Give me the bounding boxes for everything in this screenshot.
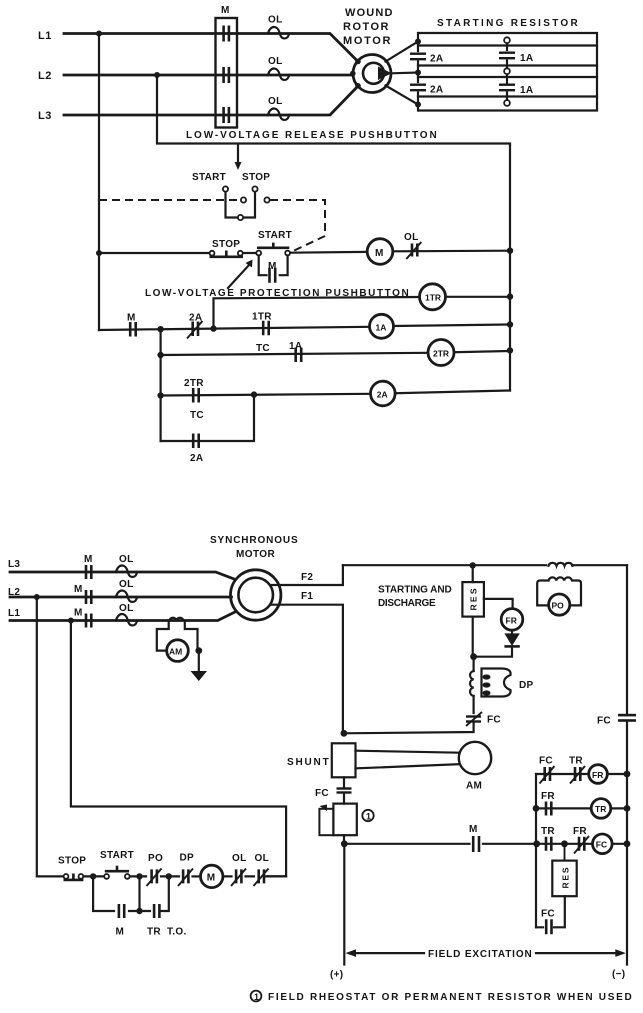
- svg-text:M: M: [268, 261, 277, 272]
- svg-text:2A: 2A: [430, 54, 443, 65]
- wire FC to F1 bus: [344, 723, 474, 733]
- svg-text:TR: TR: [541, 826, 555, 837]
- svg-text:STOP: STOP: [242, 172, 270, 183]
- contact PO NC: [147, 853, 164, 886]
- rheostat box (1): [333, 804, 356, 836]
- wire 2TR rung: [161, 351, 510, 355]
- wire row segment: [130, 875, 146, 877]
- svg-text:OL: OL: [119, 579, 134, 590]
- svg-text:STOP: STOP: [58, 856, 86, 867]
- svg-text:DP: DP: [180, 853, 195, 864]
- overload heater OL L2: [116, 590, 137, 601]
- wire right (-) rail: [626, 565, 628, 964]
- svg-text:2A: 2A: [377, 390, 388, 400]
- svg-text:M: M: [375, 248, 384, 259]
- wire right control rail: [509, 145, 511, 391]
- svg-text:STOP: STOP: [212, 239, 240, 250]
- contact M aux (1A rung): [127, 313, 136, 337]
- contact M field: [469, 824, 479, 852]
- contact TR NO (FC rung): [541, 826, 555, 851]
- contact DP NC: [178, 853, 194, 887]
- release pushbutton STOP contact: [244, 192, 255, 218]
- shunt field box: [332, 743, 356, 777]
- capacitor FC on right rail: [597, 714, 636, 727]
- svg-text:M: M: [469, 824, 478, 835]
- node junction dot F1 bus: [341, 730, 348, 737]
- arrow to release pushbutton: [237, 144, 239, 163]
- svg-text:M: M: [84, 554, 93, 565]
- contact 2A aux (parallel): [190, 434, 203, 465]
- wire 2A rung: [161, 391, 510, 396]
- node junction dot L1/left rail: [96, 31, 102, 37]
- node junction dot L1: [68, 618, 74, 624]
- wire release pushbutton feed line: [157, 75, 510, 145]
- svg-text:L3: L3: [38, 110, 52, 122]
- bottom-left control: wire rail from L2: [37, 597, 64, 876]
- svg-text:F1: F1: [301, 591, 313, 602]
- wire resistor middle column: [506, 43, 508, 100]
- meter AM (field) circle: [459, 742, 491, 774]
- svg-text:OL: OL: [404, 232, 419, 243]
- meter PO circle: [549, 594, 570, 615]
- wire RES tap to FR: [484, 599, 513, 609]
- node junction dot 2TR rung: [157, 352, 163, 358]
- wire left control rail: [98, 34, 100, 331]
- svg-text:FR: FR: [541, 791, 555, 802]
- svg-text:FC: FC: [597, 716, 611, 727]
- svg-text:OL: OL: [268, 56, 283, 67]
- coil M (sync): [201, 865, 223, 887]
- overload heater OL L2: [268, 68, 289, 79]
- svg-text:1: 1: [366, 812, 371, 822]
- contact OL NC 1 (sync): [231, 853, 247, 886]
- svg-text:PO: PO: [148, 853, 163, 864]
- wire TR rung: [536, 807, 627, 809]
- wire L3 line: [10, 572, 234, 579]
- wire F2 lead: [271, 565, 343, 585]
- svg-text:TC: TC: [256, 343, 270, 354]
- svg-text:F2: F2: [301, 572, 313, 583]
- wire L1 phase line: [64, 34, 358, 62]
- svg-text:FR: FR: [592, 770, 603, 780]
- wire diode to junction: [474, 646, 512, 656]
- contact FC NC (FR rung): [539, 756, 555, 784]
- svg-text:FIELD RHEOSTAT OR PERMANENT RE: FIELD RHEOSTAT OR PERMANENT RESISTOR WHE…: [268, 992, 632, 1003]
- contact TR T.O. (sync): [147, 904, 187, 938]
- svg-text:(+): (+): [330, 970, 343, 981]
- node junction dot 2A rung: [157, 392, 163, 398]
- coil 2A: [371, 381, 396, 406]
- svg-text:OL: OL: [119, 554, 134, 565]
- svg-text:(−): (−): [612, 969, 625, 980]
- overload heater OL L3: [116, 565, 137, 576]
- note: circled 1 field rheostat: [251, 991, 262, 1002]
- node junction dot seal branch: [136, 908, 142, 914]
- wire seal branch verticals: [93, 876, 169, 911]
- pushbutton START (protection): [256, 230, 292, 255]
- node rotor lead junction dots on bank: [415, 39, 421, 45]
- contact TR NC (FR rung): [569, 756, 585, 784]
- svg-text:AM: AM: [169, 647, 182, 657]
- svg-text:PO: PO: [552, 601, 565, 611]
- svg-text:OL: OL: [232, 853, 247, 864]
- contact 1A lower: [499, 84, 533, 97]
- svg-text:START: START: [258, 230, 292, 241]
- wire FR rung: [536, 773, 627, 775]
- svg-text:START: START: [100, 850, 134, 861]
- svg-text:2A: 2A: [430, 85, 443, 96]
- transformer PO secondary loop: [537, 577, 581, 605]
- node junction dot field bus left: [341, 840, 348, 847]
- contact 2A upper (accelerating): [410, 53, 443, 65]
- contact M L3 pole: [224, 107, 229, 123]
- svg-text:STARTING RESISTOR: STARTING RESISTOR: [437, 18, 578, 29]
- svg-text:ROTOR: ROTOR: [343, 21, 389, 33]
- svg-text:1A: 1A: [289, 341, 302, 352]
- node junction dot FC rung: [561, 840, 568, 847]
- svg-text:M: M: [127, 313, 136, 324]
- release pushbutton START contact: [226, 192, 238, 218]
- svg-text:WOUND: WOUND: [345, 7, 393, 19]
- coil FC: [593, 834, 613, 854]
- svg-text:TR: TR: [595, 804, 606, 814]
- svg-text:T.O.: T.O.: [167, 927, 187, 938]
- diode rectifier: [511, 630, 513, 633]
- resistor RES (discharge) box: [552, 844, 576, 896]
- wire 2A parallel branch: [161, 395, 254, 441]
- relay DP coil: [473, 657, 475, 671]
- svg-text:RES: RES: [469, 588, 479, 610]
- arrow to protection pushbutton: [228, 265, 250, 289]
- contact M L1 pole: [224, 26, 229, 42]
- svg-text:STARTING AND: STARTING AND: [378, 585, 452, 596]
- wire row segment: [84, 875, 105, 877]
- svg-text:AM: AM: [466, 781, 482, 792]
- resistor bank internal taps: [418, 46, 597, 97]
- svg-text:2TR: 2TR: [184, 378, 204, 389]
- coil 1TR: [420, 284, 446, 310]
- svg-text:MOTOR: MOTOR: [343, 35, 391, 47]
- node rail dot FC rung: [624, 840, 631, 847]
- contact FC (bottom): [541, 909, 555, 935]
- svg-text:FIELD EXCITATION: FIELD EXCITATION: [428, 949, 532, 960]
- svg-text:1TR: 1TR: [252, 312, 272, 323]
- wire 1A rung: [99, 325, 510, 331]
- svg-text:RES: RES: [561, 867, 571, 888]
- svg-text:MOTOR: MOTOR: [236, 549, 275, 560]
- wire RES bottom to junction: [472, 617, 474, 657]
- contact FC NC (discharge path): [466, 712, 501, 726]
- wire rotor lead top: [386, 42, 419, 62]
- contact M L1: [74, 608, 91, 628]
- svg-text:DISCHARGE: DISCHARGE: [378, 598, 436, 609]
- wire L2 line: [10, 596, 232, 599]
- contact M seal (sync): [116, 904, 125, 938]
- overload heater OL L3: [268, 108, 289, 119]
- svg-text:SYNCHRONOUS: SYNCHRONOUS: [210, 535, 298, 546]
- wire rotor lead bottom: [386, 86, 419, 105]
- capacitor FC below shunt: [315, 787, 352, 799]
- svg-text:TR: TR: [569, 756, 583, 767]
- wire top bus (F2 to right rail): [343, 564, 627, 566]
- svg-text:1A: 1A: [376, 322, 387, 332]
- svg-text:FC: FC: [541, 909, 555, 920]
- field excitation arrow line: [352, 952, 620, 954]
- wire L1 line: [10, 612, 236, 621]
- svg-text:M: M: [207, 873, 216, 884]
- wire 1TR rung: [214, 297, 511, 329]
- pushbutton STOP (protection): [210, 239, 244, 257]
- svg-text:L3: L3: [8, 559, 20, 570]
- svg-text:START: START: [192, 172, 226, 183]
- contact 1TR TC (1A rung): [252, 312, 272, 355]
- svg-text:LOW-VOLTAGE RELEASE PUSHBUTTON: LOW-VOLTAGE RELEASE PUSHBUTTON: [186, 130, 437, 141]
- coil 1A: [370, 314, 394, 338]
- node rail dots FR rung: [624, 771, 631, 778]
- wire rheostat to field bus: [343, 835, 345, 844]
- svg-text:FC: FC: [487, 715, 501, 726]
- node junction dot parallel branch top: [251, 391, 257, 397]
- node junction dot M rung left rail: [96, 250, 102, 256]
- contact 1A upper: [499, 52, 533, 65]
- svg-text:OL: OL: [255, 853, 270, 864]
- coil TR: [591, 799, 611, 819]
- contact M L3: [84, 554, 93, 579]
- wire dashed to protection start: [270, 200, 325, 252]
- wire F1 lead: [271, 605, 343, 734]
- node junction dot L2: [34, 594, 40, 600]
- resistor RES box (starting/discharge): [462, 565, 484, 616]
- svg-text:FR: FR: [506, 615, 517, 625]
- contact 2A NC (1A rung): [187, 313, 203, 339]
- contactor M1 box: [216, 18, 238, 128]
- svg-text:OL: OL: [268, 96, 283, 107]
- node junction dot after 2A NC: [210, 325, 216, 331]
- svg-text:M: M: [221, 5, 230, 16]
- node junction dot L2/release rail: [154, 72, 160, 78]
- contact FR NC (FC rung): [573, 826, 589, 854]
- pushbutton START (sync): [104, 866, 130, 879]
- motor synchronous inner circle: [238, 578, 273, 613]
- relay FR circle: [501, 609, 523, 631]
- wire to ground: [198, 651, 200, 671]
- contact 2TR TC (2A rung): [184, 378, 204, 421]
- node junction dot after PO: [166, 873, 172, 879]
- wire matrix left rail: [535, 774, 537, 927]
- node junction dot after START: [136, 873, 142, 879]
- svg-text:L1: L1: [8, 608, 20, 619]
- svg-text:TR: TR: [147, 927, 161, 938]
- wire RES to FC contact: [536, 896, 565, 927]
- contact OL NC (M rung): [404, 232, 421, 259]
- wire (+) rail: [343, 844, 345, 965]
- svg-text:L1: L1: [38, 30, 52, 42]
- contact 2A lower (accelerating): [410, 84, 443, 96]
- node rail dot TR rung: [624, 805, 631, 812]
- wire field bottom bus: [344, 843, 627, 845]
- svg-text:FC: FC: [315, 788, 329, 799]
- svg-text:L2: L2: [38, 70, 52, 82]
- wire row segment: [161, 875, 179, 877]
- node terminal circles middle column: [504, 37, 510, 43]
- current transformer on L1: [169, 618, 183, 621]
- coil M: [367, 239, 393, 265]
- symbol circled 1: [362, 810, 373, 822]
- wire row segment: [193, 875, 201, 877]
- svg-text:M: M: [116, 927, 125, 938]
- svg-text:FC: FC: [539, 756, 553, 767]
- motor wound-rotor outer stator circle: [353, 55, 391, 93]
- resistor bank outer box: [418, 33, 597, 111]
- node junction dot below RES: [470, 653, 477, 660]
- svg-text:OL: OL: [268, 15, 283, 26]
- node dot TR rung left: [533, 805, 540, 812]
- wire M coil rung: [99, 251, 510, 253]
- ammeter AM branch wires: [157, 621, 198, 651]
- wire field rheostat bar to AM: [356, 751, 460, 769]
- motor rotor inner circle: [363, 63, 384, 84]
- node rail dots: [507, 248, 513, 254]
- wire row segment: [223, 875, 286, 877]
- contact OL NC 2 (sync): [254, 853, 270, 886]
- ground symbol: [191, 671, 208, 681]
- svg-text:OL: OL: [119, 603, 134, 614]
- contact FR NO (TR rung): [541, 791, 555, 816]
- svg-text:2A: 2A: [190, 453, 203, 464]
- contact 1A aux (2TR rung): [289, 341, 302, 362]
- overload heater OL L1: [268, 27, 289, 38]
- svg-text:TC: TC: [190, 410, 204, 421]
- svg-text:FR: FR: [573, 826, 587, 837]
- motor synchronous outer circle: [231, 570, 281, 620]
- contact M L2: [74, 584, 91, 604]
- wire dashed control feed: [99, 199, 238, 201]
- node junction dot top bus: [470, 562, 476, 568]
- wire L3 phase line: [64, 86, 358, 115]
- wire shunt to rheostat: [343, 777, 345, 803]
- svg-text:SHUNT: SHUNT: [287, 757, 329, 768]
- svg-text:1TR: 1TR: [425, 293, 441, 303]
- wire vertical sub-rail (rows): [160, 329, 162, 441]
- svg-text:FC: FC: [596, 840, 607, 850]
- contact M seal-in box: [259, 256, 288, 283]
- node motor terminal dots: [355, 59, 361, 65]
- transformer PO primary bumps: [549, 563, 573, 566]
- svg-text:1A: 1A: [520, 53, 533, 64]
- overload heater OL L1: [116, 614, 137, 625]
- svg-text:1: 1: [254, 992, 259, 1002]
- pushbutton STOP (sync): [64, 874, 84, 880]
- motor brush wedge: [378, 67, 392, 81]
- node dot field rung left: [533, 840, 540, 847]
- wire rotor lead middle: [392, 71, 419, 74]
- svg-text:DP: DP: [519, 680, 534, 691]
- coil 2TR: [428, 340, 454, 366]
- contact M L2 pole: [224, 67, 229, 83]
- svg-text:M: M: [74, 608, 83, 619]
- svg-text:2TR: 2TR: [433, 348, 449, 358]
- coil FR: [589, 765, 608, 784]
- wire L2 phase line: [64, 74, 353, 77]
- svg-text:1A: 1A: [520, 85, 533, 96]
- svg-text:M: M: [74, 584, 83, 595]
- wire rail from L1 to row end: [71, 621, 286, 877]
- node junction dot AM right: [195, 647, 202, 654]
- meter AM circle: [167, 640, 189, 662]
- relay DP core: [482, 669, 511, 697]
- node junction dot after M aux: [157, 326, 163, 332]
- node junction dot after STOP: [90, 873, 96, 879]
- svg-text:2A: 2A: [189, 313, 202, 324]
